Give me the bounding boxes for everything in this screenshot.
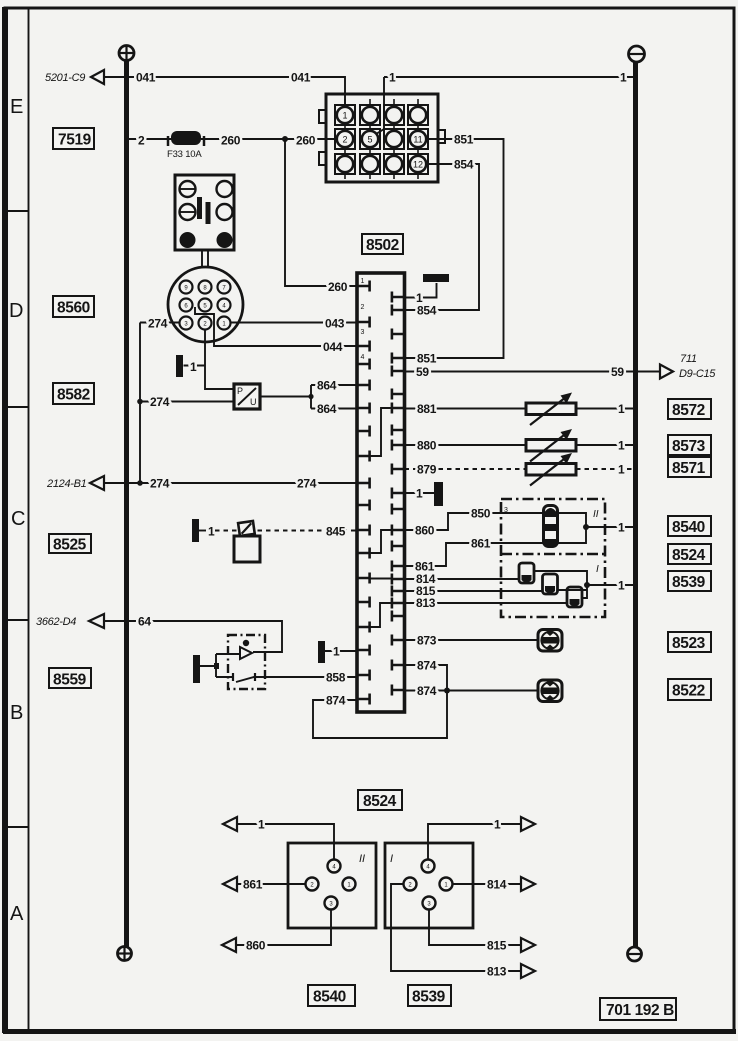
svg-text:8524: 8524 bbox=[672, 547, 706, 564]
svg-text:1: 1 bbox=[618, 463, 625, 477]
svg-text:041: 041 bbox=[136, 71, 156, 85]
svg-text:8540: 8540 bbox=[313, 989, 346, 1006]
svg-text:8523: 8523 bbox=[672, 635, 706, 652]
svg-text:851: 851 bbox=[417, 352, 437, 366]
svg-text:260: 260 bbox=[221, 134, 241, 148]
svg-text:D9-C15: D9-C15 bbox=[679, 368, 716, 380]
svg-text:854: 854 bbox=[417, 304, 437, 318]
svg-text:8524: 8524 bbox=[363, 793, 397, 810]
svg-text:8572: 8572 bbox=[672, 402, 705, 419]
svg-text:I: I bbox=[390, 853, 393, 865]
svg-text:879: 879 bbox=[417, 463, 437, 477]
svg-text:2124-B1: 2124-B1 bbox=[46, 478, 87, 490]
svg-text:F33 10A: F33 10A bbox=[167, 149, 202, 160]
svg-text:64: 64 bbox=[138, 615, 151, 629]
svg-text:1: 1 bbox=[333, 645, 340, 659]
svg-text:D: D bbox=[9, 300, 23, 322]
svg-text:II: II bbox=[359, 853, 365, 865]
svg-text:274: 274 bbox=[150, 477, 170, 491]
svg-text:864: 864 bbox=[317, 379, 337, 393]
svg-text:I: I bbox=[596, 564, 599, 575]
svg-text:274: 274 bbox=[297, 477, 317, 491]
svg-text:845: 845 bbox=[326, 525, 346, 539]
svg-text:U: U bbox=[250, 397, 257, 407]
svg-text:59: 59 bbox=[611, 365, 624, 379]
svg-text:8539: 8539 bbox=[672, 574, 706, 591]
svg-text:1: 1 bbox=[361, 278, 365, 285]
svg-text:701 192 B: 701 192 B bbox=[606, 1002, 674, 1019]
svg-text:815: 815 bbox=[487, 939, 507, 953]
svg-text:3: 3 bbox=[361, 329, 365, 336]
svg-text:813: 813 bbox=[487, 965, 507, 979]
svg-text:1: 1 bbox=[618, 579, 625, 593]
svg-text:874: 874 bbox=[417, 659, 437, 673]
svg-text:880: 880 bbox=[417, 439, 437, 453]
svg-text:874: 874 bbox=[326, 694, 346, 708]
svg-text:260: 260 bbox=[328, 280, 348, 294]
svg-text:814: 814 bbox=[487, 878, 507, 892]
svg-text:A: A bbox=[10, 903, 24, 925]
svg-text:E: E bbox=[10, 96, 23, 118]
svg-text:860: 860 bbox=[415, 524, 435, 538]
svg-text:1: 1 bbox=[620, 71, 627, 85]
svg-text:1: 1 bbox=[618, 439, 625, 453]
svg-text:2: 2 bbox=[138, 134, 145, 148]
svg-text:II: II bbox=[593, 509, 599, 520]
svg-text:1: 1 bbox=[618, 521, 625, 535]
svg-text:711: 711 bbox=[680, 353, 697, 365]
svg-text:864: 864 bbox=[317, 402, 337, 416]
svg-text:8539: 8539 bbox=[412, 989, 446, 1006]
svg-text:4: 4 bbox=[361, 354, 365, 361]
svg-text:C: C bbox=[11, 508, 25, 530]
svg-text:274: 274 bbox=[150, 395, 170, 409]
svg-text:8522: 8522 bbox=[672, 683, 705, 700]
svg-text:260: 260 bbox=[296, 134, 316, 148]
svg-text:1: 1 bbox=[416, 487, 423, 501]
svg-text:59: 59 bbox=[416, 365, 429, 379]
svg-text:1: 1 bbox=[494, 818, 501, 832]
svg-text:043: 043 bbox=[325, 317, 345, 331]
svg-text:044: 044 bbox=[323, 340, 343, 354]
svg-text:8502: 8502 bbox=[366, 237, 399, 254]
svg-text:1: 1 bbox=[258, 818, 265, 832]
svg-text:1: 1 bbox=[190, 360, 197, 374]
svg-text:8571: 8571 bbox=[672, 460, 706, 477]
svg-text:8560: 8560 bbox=[57, 300, 90, 317]
svg-text:1: 1 bbox=[389, 71, 396, 85]
svg-text:860: 860 bbox=[246, 939, 266, 953]
svg-text:11: 11 bbox=[413, 135, 422, 145]
svg-text:2: 2 bbox=[342, 135, 347, 145]
svg-text:1: 1 bbox=[416, 291, 423, 305]
svg-text:8573: 8573 bbox=[672, 438, 706, 455]
svg-text:851: 851 bbox=[454, 133, 474, 147]
svg-text:1: 1 bbox=[342, 111, 347, 121]
svg-text:850: 850 bbox=[471, 507, 491, 521]
svg-text:274: 274 bbox=[148, 317, 168, 331]
svg-text:8582: 8582 bbox=[57, 387, 90, 404]
svg-text:881: 881 bbox=[417, 402, 437, 416]
svg-text:P: P bbox=[237, 386, 243, 396]
svg-text:12: 12 bbox=[413, 160, 423, 170]
svg-text:858: 858 bbox=[326, 671, 346, 685]
svg-text:5: 5 bbox=[367, 135, 372, 145]
svg-text:874: 874 bbox=[417, 684, 437, 698]
svg-text:873: 873 bbox=[417, 634, 437, 648]
svg-text:041: 041 bbox=[291, 71, 311, 85]
svg-text:8540: 8540 bbox=[672, 519, 705, 536]
svg-text:5201-C9: 5201-C9 bbox=[45, 72, 85, 84]
svg-text:1: 1 bbox=[208, 525, 215, 539]
svg-text:854: 854 bbox=[454, 158, 474, 172]
svg-text:861: 861 bbox=[243, 878, 263, 892]
svg-text:7519: 7519 bbox=[58, 132, 92, 149]
svg-text:813: 813 bbox=[416, 596, 436, 610]
svg-text:B: B bbox=[10, 702, 23, 724]
svg-text:8559: 8559 bbox=[53, 672, 87, 689]
svg-text:3662-D4: 3662-D4 bbox=[36, 616, 76, 628]
svg-text:8525: 8525 bbox=[53, 537, 87, 554]
svg-text:2: 2 bbox=[361, 304, 365, 311]
svg-text:861: 861 bbox=[471, 537, 491, 551]
svg-text:1: 1 bbox=[618, 402, 625, 416]
